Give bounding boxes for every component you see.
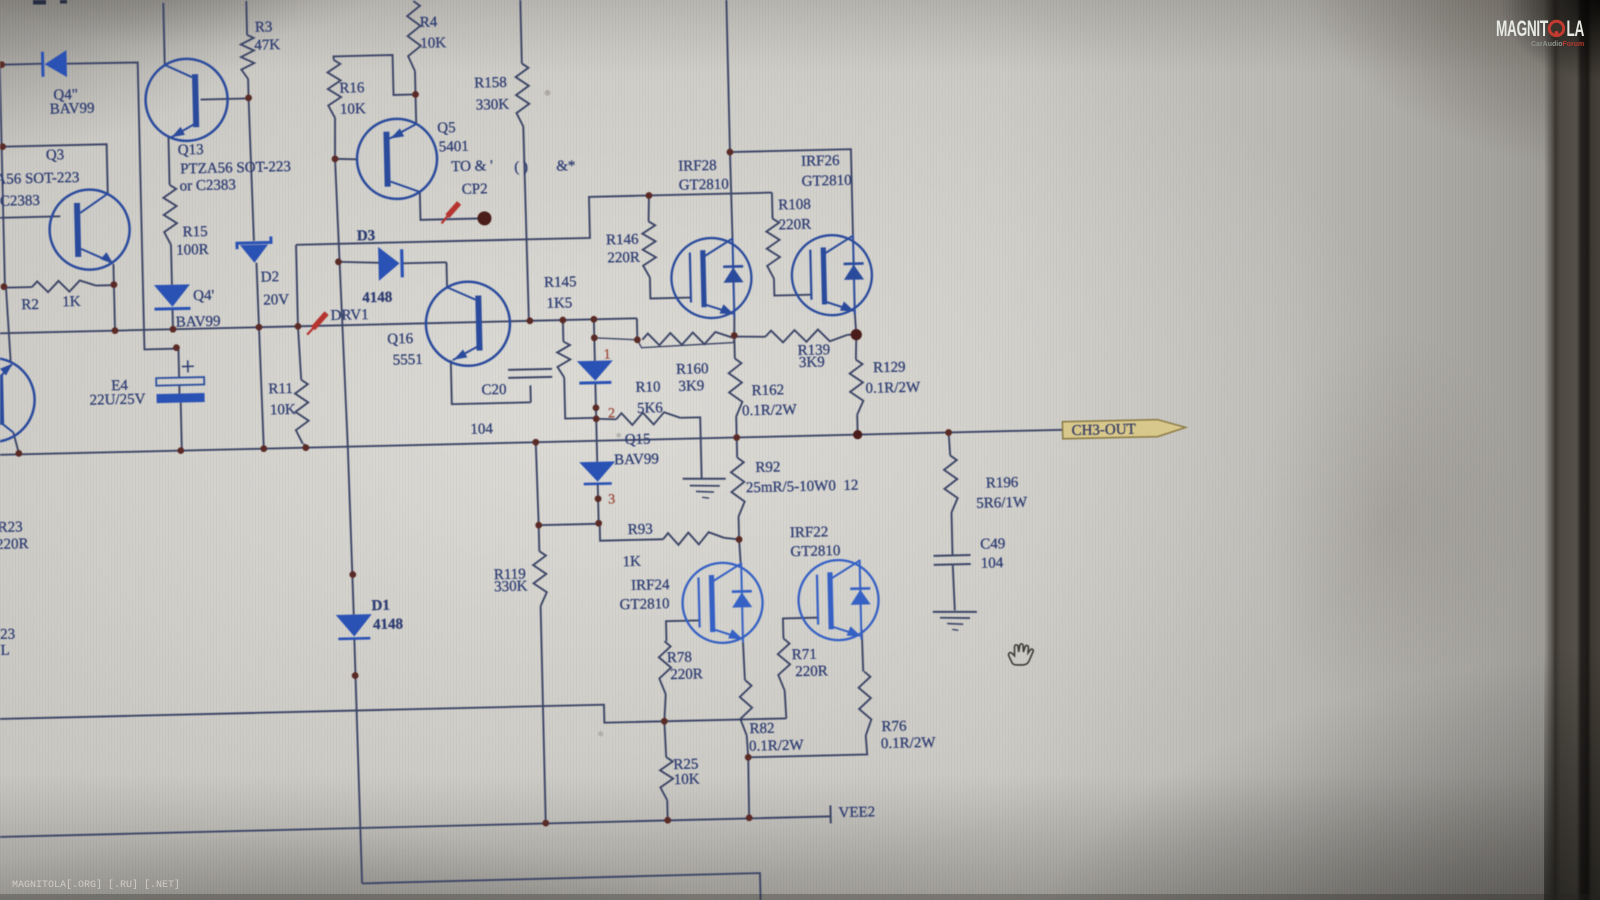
label Q16 [387,331,414,348]
label IRF28 [678,158,717,175]
svg-text:R92: R92 [755,459,780,476]
label R93 [628,521,653,538]
svg-text:100R: 100R [176,242,209,259]
svg-text:D2: D2 [261,269,280,285]
svg-text:1: 1 [604,347,611,362]
label 3K9 R160 [678,378,704,395]
wire Q16 emitter path [451,358,531,404]
speck [544,88,628,737]
label ampstar [556,158,576,174]
resistor R4 [407,1,422,71]
label Q15 [625,432,651,449]
label C20 [481,382,506,399]
pin 3 Q15 [608,492,615,507]
label CP2 [462,181,488,198]
wire Q3 emitter to node E [112,264,114,285]
wire node E to rail1 [114,285,115,330]
svg-text:0.1R/2W: 0.1R/2W [865,380,921,397]
label GT2810 28 [679,177,729,194]
svg-text:10K: 10K [270,402,296,419]
resistor R11 [295,380,310,444]
wire R129 to rail3 [856,415,858,435]
mosfet IRF28 [670,237,752,319]
wire D3 row [338,259,446,265]
wire IRF26 source to N2 [855,313,857,335]
label 01R2W R82 [749,737,805,754]
svg-text:1K: 1K [62,294,81,310]
svg-text:IRF26: IRF26 [801,153,840,170]
capacitor C49 [934,555,971,565]
wire R196 top [949,432,951,455]
label A56 SOT-223 [0,170,80,188]
resistor R93 [663,532,724,545]
ground under C49 [933,611,977,631]
diode Q15 upper [577,360,614,383]
wire Q4'' anode rail [0,64,43,66]
wire Q4'' cathode to corner [67,61,179,351]
wire R119 top [536,442,539,525]
svg-text:R10: R10 [635,379,660,396]
svg-text:R145: R145 [544,274,577,291]
wire R158 column [520,0,529,321]
resistor R15 [163,185,177,245]
wire R92 bottom [738,516,741,539]
label GT2810 24 [619,596,669,613]
wire R4 bottom [414,71,417,94]
label 1K R93 [622,554,641,570]
label 220R R23 [0,536,29,553]
wire R146 to gate [650,277,690,299]
label 5R61W [976,495,1028,512]
wire IRF24 source [743,642,745,680]
diode D3 [378,246,402,281]
svg-text:R196: R196 [986,475,1019,492]
wire Q4' to rail1 [172,310,174,329]
label parens [514,159,528,175]
label R160 [676,361,709,378]
wire Q13 emitter to R15 [168,137,169,185]
svg-text:10K: 10K [420,35,446,52]
label 220R R108 [779,217,812,234]
svg-text:R78: R78 [667,650,692,667]
svg-text:10K: 10K [340,101,366,118]
label R3 [255,19,273,35]
net flag CH3-OUT [1062,419,1185,439]
label fragment top edge left [33,0,67,5]
svg-text:220R: 220R [607,250,640,267]
label 5551 [393,352,423,369]
svg-text:20V: 20V [263,292,289,309]
svg-text:4148: 4148 [373,616,403,633]
label D2 [261,269,280,285]
diode Q4' [154,284,191,309]
resistor R3 [241,35,255,79]
svg-text:R158: R158 [474,75,507,92]
svg-text:R129: R129 [873,359,906,376]
label R78 [667,650,692,667]
ground near Q15 [683,478,726,499]
svg-text:220R: 220R [779,217,812,234]
label 20V [263,292,289,309]
svg-text:104: 104 [470,421,493,438]
svg-text:104: 104 [981,555,1004,572]
wire R71 bottom [785,690,787,718]
label GT2810 26 [801,173,851,190]
label 330K R119 [494,578,528,595]
svg-text:CP2: CP2 [462,181,488,198]
svg-text:1K5: 1K5 [546,295,572,312]
wire R160 to N1 [732,336,734,338]
wire rail1 DRV1 bus [0,318,637,333]
svg-text:330K: 330K [494,578,528,595]
wire R146 top [648,195,650,221]
svg-text:R2: R2 [21,297,39,313]
wire R11 column [298,326,306,448]
label IRF26 [801,153,840,170]
svg-text:Q4': Q4' [193,288,215,304]
resistor R25 [660,757,674,800]
svg-text:R4: R4 [420,14,438,30]
label 5K6 [637,400,664,417]
wire bottom box [362,873,761,900]
resistor R129 [849,360,863,415]
svg-text:A56 SOT-223: A56 SOT-223 [0,170,80,188]
svg-text:R76: R76 [881,719,907,736]
svg-text:PTZA56 SOT-223: PTZA56 SOT-223 [180,159,291,178]
capacitor C20 [508,369,552,378]
label Q13 [178,142,204,159]
label 220R R146 [607,250,640,267]
label 104 C49 [981,555,1004,572]
svg-text:&*: &* [556,158,576,174]
label Q4' [193,288,215,304]
svg-text:R146: R146 [606,232,639,249]
label 10K R16 [340,101,366,118]
resistor R108 [766,218,780,278]
svg-text:( ): ( ) [514,159,528,175]
wire R16 top link [334,54,416,96]
wire IRF24 drain [739,539,741,562]
transistor Q16 [425,281,511,367]
wire R162 to rail3 [735,416,737,437]
label TO [451,158,493,175]
wire D3 to Q16 collector [445,262,448,287]
svg-text:10K: 10K [674,771,700,788]
label C2383 left [0,193,40,210]
label R76 [881,719,907,736]
wire R3 top [245,1,248,35]
transistor Q13 [145,58,229,142]
label R146 [606,232,639,249]
wire IRF22 source [862,630,863,672]
label R23 [0,519,23,536]
node CP2 test point [477,211,491,225]
node rail3 junction [853,430,862,439]
svg-text:GT2810: GT2810 [801,173,851,190]
mosfet IRF24 [682,562,764,644]
svg-text:R162: R162 [751,382,784,399]
label R2 [21,297,39,313]
svg-text:R16: R16 [339,80,365,97]
svg-text:3K9: 3K9 [678,378,704,395]
red mark DRV1 [307,313,327,334]
svg-text:R93: R93 [628,521,653,538]
wire left transistor collector [13,432,18,453]
wire D2 column to rail3 [256,263,263,449]
wire R15 to Q4' diode [170,245,173,285]
svg-text:IRF22: IRF22 [790,524,829,541]
svg-text:BAV99: BAV99 [176,314,221,331]
wire IRF28 drain [730,152,733,237]
svg-text:R82: R82 [749,721,774,738]
label 1K [62,294,81,310]
svg-text:CarAudio: CarAudio [1531,41,1563,48]
svg-text:5551: 5551 [393,352,423,369]
diode Q15 lower [579,461,616,484]
wire C20 bottom link [529,385,531,402]
wire R93 lead right [724,537,739,539]
svg-text:or C2383: or C2383 [179,177,236,194]
label 104 C20 [470,421,493,438]
wire R119 link [539,524,600,525]
wire rail3 CH3-OUT bus [0,430,1064,455]
label 10K R25 [674,771,700,788]
svg-text:3: 3 [608,492,615,507]
label 22U/25V [89,391,145,408]
resistor R71 [777,638,790,690]
label R10 [635,379,660,396]
svg-text:Forum: Forum [1563,41,1585,48]
label DRV1 [331,307,369,324]
svg-text:IRF28: IRF28 [678,158,717,175]
svg-text:C20: C20 [481,382,506,399]
wire Q13 base [201,98,249,99]
label R16 [339,80,365,97]
pin 2 Q15 [608,406,615,421]
resistor R119 [533,551,547,606]
wire R3 bottom to junction [247,79,249,98]
label PTZA56 SOT-223 [180,159,291,178]
svg-text:C2383: C2383 [0,193,40,210]
label L frag [0,643,10,659]
label IRF24 [631,577,670,594]
svg-text:5401: 5401 [439,139,469,156]
label 1K5 [546,295,572,312]
label R139 [797,342,830,359]
label R129 [873,359,906,376]
svg-text:IRF24: IRF24 [631,577,670,594]
wire lower bus A [0,700,786,737]
svg-text:R71: R71 [792,647,817,664]
wire R145 column [563,319,596,418]
label 10K R4 [420,35,446,52]
label 4148 D1 [373,616,403,633]
wire Q5 collector to CP2 [420,191,479,220]
svg-text:Q3: Q3 [46,147,65,163]
wire R78 bottom [664,694,667,721]
svg-text:R160: R160 [676,361,709,378]
resistor R16 [327,60,341,118]
svg-text:R23: R23 [0,519,23,536]
svg-text:2: 2 [608,406,615,421]
svg-text:VEE2: VEE2 [838,804,875,821]
wire R2 leads [4,285,114,288]
wire R93 lead left [600,522,663,540]
svg-text:DRV1: DRV1 [331,307,369,324]
label R92 [755,459,780,476]
wire 5K6 row [596,416,701,480]
svg-text:R25: R25 [673,756,698,773]
mosfet IRF26 [791,234,873,316]
svg-text:330K: 330K [476,97,510,114]
red mark CP2 [441,203,459,223]
svg-text:D3: D3 [357,228,376,244]
wire R82 bottom [747,735,749,757]
label 330K R158 [476,97,510,114]
wire Q13 collector up [163,3,164,65]
resistor R139 [765,329,847,343]
svg-text:5K6: 5K6 [637,400,664,417]
wire N2 to R129 [855,335,857,360]
label R82 [749,721,774,738]
wire R139 leads [734,334,856,338]
label E4 [111,378,129,394]
wire upper gate feed [295,193,773,245]
svg-text:R11: R11 [268,381,293,398]
label 4148 D3 [362,290,392,307]
svg-text:220R: 220R [0,536,29,553]
wire rail to Q3 collector [3,144,108,196]
resistor R145 [557,341,571,377]
label 220R R78 [670,666,703,683]
wire Q15 column [594,319,599,523]
resistor R78 [658,641,671,694]
svg-text:GT2810: GT2810 [679,177,729,194]
wire D1 column [335,159,362,884]
wire D2 column top [249,98,254,241]
svg-text:23: 23 [0,627,15,643]
wire R16 bottom [334,118,336,159]
svg-text:MAGNIT: MAGNIT [1496,16,1548,41]
net label VEE2 [838,804,875,821]
transistor Q3 [49,189,131,271]
wire left transistor emitter up [6,287,11,363]
resistor R146 [642,221,656,277]
resistor R158 [515,63,529,126]
wire R92 top [736,437,738,457]
svg-text:220R: 220R [670,666,703,683]
label BAV99 lower [176,314,221,331]
label 01R2W R76 [881,735,937,752]
wire C49 to gnd [953,565,955,610]
svg-text:220R: 220R [795,663,828,680]
diode D1 [336,614,373,639]
svg-text:0.1R/2W: 0.1R/2W [742,402,798,419]
svg-text:R108: R108 [778,197,811,214]
wire R25 column [664,721,667,820]
svg-text:GT2810: GT2810 [619,596,669,613]
svg-text:47K: 47K [254,37,280,54]
svg-text:BAV99: BAV99 [50,101,95,118]
label BAV99 Q15 [614,451,659,468]
label R108 [778,197,811,214]
label 01R2W R129 [865,380,921,397]
svg-text:3K9: 3K9 [799,354,825,371]
transistor left partial [0,357,36,443]
cursor hand [1009,644,1034,665]
label R119 [494,566,526,583]
svg-text:0.1R/2W: 0.1R/2W [749,737,805,754]
label GT2810 22 [790,543,840,560]
label R158 [474,75,507,92]
label Q3 [46,147,65,163]
svg-text:Q15: Q15 [625,432,651,449]
label or C2383 [179,177,236,194]
zener D2 [237,236,272,263]
label R71 [792,647,817,664]
label 25mR [746,478,859,497]
svg-text:L: L [0,643,10,659]
wire IRF28 source to N1 [733,318,736,336]
svg-text:22U/25V: 22U/25V [89,391,145,408]
label Q5 [437,120,456,136]
resistor R76 [858,671,872,735]
label 23 frag [0,627,15,643]
wire Q3 base [0,216,60,218]
label IRF22 [790,524,829,541]
label R4 [420,14,438,30]
wire R160 elbow [636,318,639,339]
node N2 big junction [851,329,862,340]
svg-text:5R6/1W: 5R6/1W [976,495,1028,512]
wire VEE2 rail [0,816,831,837]
resistor R162 [728,358,742,416]
wire R108 to gate [774,278,811,296]
label 5401 [439,139,469,156]
svg-text:Q16: Q16 [387,331,414,348]
resistor R2 [32,280,96,293]
svg-text:CH3-OUT: CH3-OUT [1071,422,1136,440]
wire E4 cap column [178,349,181,451]
wire IRF26 top feed [730,149,853,237]
diode Q4'' [42,50,67,78]
label R11 [268,381,293,398]
label C49 [980,536,1005,553]
svg-text:GT2810: GT2810 [790,543,840,560]
resistor R196 [944,455,958,512]
wire Q5 emitter up [415,94,418,123]
svg-text:25mR/5-10W0 12: 25mR/5-10W0 12 [746,478,859,497]
label R15 [183,224,208,241]
resistor R82 [739,680,752,735]
label 3K9 R139 [799,354,825,371]
svg-text:4148: 4148 [362,290,392,307]
wire pin1 link [594,337,637,341]
svg-text:TO & ': TO & ' [451,158,493,175]
capacitor E4 [156,360,205,403]
svg-text:BAV99: BAV99 [614,451,659,468]
resistor R10 5K6 [616,412,680,426]
wire IRF24 gate [666,620,699,641]
svg-text:Q5: Q5 [437,120,456,136]
wire left vertical bus [0,65,5,287]
svg-text:1K: 1K [622,554,641,570]
label 100R [176,242,209,259]
wire Q5 base [335,158,357,160]
svg-text:C49: C49 [980,536,1005,553]
pin 1 Q15 [604,347,611,362]
wire center spine top [726,0,730,152]
